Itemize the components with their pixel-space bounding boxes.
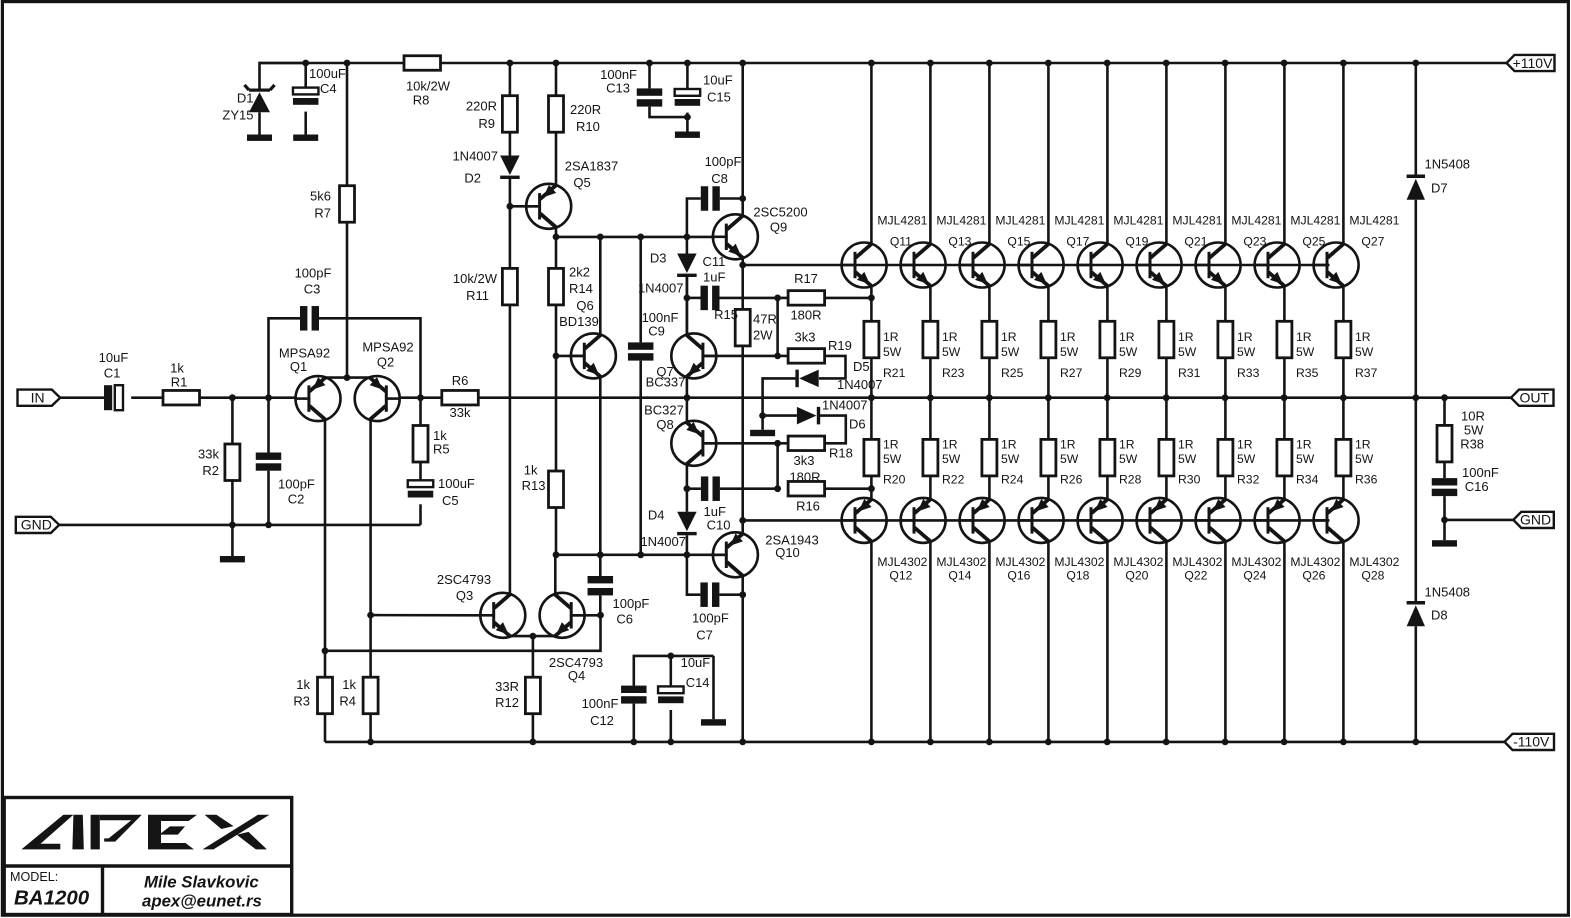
wire R25 to output: [988, 358, 991, 398]
svg-text:R13: R13: [522, 478, 546, 493]
svg-text:IN: IN: [31, 390, 45, 406]
transistor Q18 MJL4302: [1019, 498, 1064, 543]
capacitor C4 100uF: [304, 63, 307, 88]
svg-text:1R: 1R: [1237, 330, 1253, 344]
diode D6 1N4007: [797, 407, 817, 425]
resistor R29 1R 5W: [1100, 321, 1115, 358]
svg-text:R33: R33: [1237, 366, 1260, 380]
svg-text:MJL4302: MJL4302: [1349, 555, 1399, 569]
svg-text:R22: R22: [942, 473, 965, 487]
svg-text:MJL4281: MJL4281: [936, 214, 986, 228]
wire Q23 emitter: [1224, 286, 1227, 322]
svg-text:+110V: +110V: [1513, 55, 1553, 71]
svg-text:R10: R10: [576, 119, 600, 134]
svg-text:10k/2W: 10k/2W: [453, 271, 498, 286]
svg-text:1k: 1k: [342, 677, 356, 692]
svg-text:D5: D5: [853, 359, 870, 374]
resistor R11 10k/2W: [502, 268, 517, 305]
svg-text:D2: D2: [464, 171, 481, 186]
resistor R26 1R 5W: [1047, 398, 1050, 440]
svg-text:C15: C15: [707, 90, 731, 105]
svg-text:10uF: 10uF: [703, 73, 733, 88]
resistor R24 1R 5W: [988, 398, 991, 440]
svg-text:ZY15: ZY15: [222, 108, 253, 123]
wire Q11 emitter: [870, 286, 873, 322]
svg-text:100uF: 100uF: [438, 476, 475, 491]
wire Q4 base: [571, 614, 600, 617]
zener diode D1 ZY15: [249, 89, 270, 92]
resistor R3 1k: [324, 651, 327, 677]
svg-text:C1: C1: [104, 366, 121, 381]
transistor Q11 MJL4281: [842, 243, 887, 288]
svg-text:R35: R35: [1296, 366, 1319, 380]
wire Q2 collector down: [369, 420, 372, 678]
svg-text:10R: 10R: [1461, 409, 1485, 424]
wire Q13 collector: [929, 63, 932, 244]
transistor Q9 2SC5200: [713, 214, 758, 259]
resistor R38 10R 5W: [1443, 398, 1446, 426]
svg-text:GND: GND: [21, 517, 52, 533]
wire rail to D1: [260, 63, 306, 89]
diode D3 1N4007: [686, 237, 689, 254]
capacitor C9 100nF: [639, 237, 642, 343]
svg-text:C3: C3: [304, 282, 321, 297]
svg-text:3k3: 3k3: [795, 330, 816, 345]
svg-text:3k3: 3k3: [794, 453, 815, 468]
wire Q7 collector: [686, 276, 689, 336]
wire Q11 collector: [870, 63, 873, 244]
svg-text:R16: R16: [796, 499, 820, 514]
wire R22 to Q14 emitter: [929, 476, 932, 500]
svg-text:C8: C8: [711, 171, 728, 186]
svg-text:R3: R3: [293, 694, 310, 709]
resistor R12 33R: [532, 636, 535, 677]
wire Q12 collector: [870, 541, 873, 742]
diode D5 1N4007: [795, 370, 798, 388]
resistor R28 1R 5W: [1106, 398, 1109, 440]
wire Q19 collector: [1106, 63, 1109, 244]
transistor Q1 MPSA92: [296, 376, 341, 421]
wire C11 to R17: [720, 297, 789, 300]
svg-text:1N4007: 1N4007: [822, 398, 868, 413]
svg-text:R29: R29: [1119, 366, 1142, 380]
resistor R7 5k6: [346, 63, 349, 186]
wire Q10 collector: [741, 576, 744, 742]
wire D6 to R18: [820, 416, 846, 444]
svg-text:5W: 5W: [1178, 345, 1197, 359]
wire Q17 emitter: [1047, 286, 1050, 322]
wire Q6 collector: [599, 237, 602, 336]
svg-text:Q14: Q14: [948, 569, 971, 583]
svg-text:5W: 5W: [1355, 345, 1374, 359]
svg-text:1R: 1R: [942, 330, 958, 344]
ground: [293, 135, 318, 141]
net bias line wire: [556, 553, 727, 556]
terminal flag +110V: [1507, 55, 1555, 71]
resistor R18 3k3: [788, 436, 825, 451]
svg-text:2SC5200: 2SC5200: [753, 205, 807, 220]
svg-text:R8: R8: [413, 93, 430, 108]
svg-text:BC327: BC327: [644, 403, 684, 418]
svg-text:5W: 5W: [1119, 345, 1138, 359]
svg-text:5W: 5W: [1296, 345, 1315, 359]
ground: [761, 416, 764, 430]
svg-text:1k: 1k: [170, 361, 184, 376]
svg-text:MJL4302: MJL4302: [1113, 555, 1163, 569]
ground: [220, 556, 245, 562]
svg-text:1R: 1R: [1355, 330, 1371, 344]
resistor R33 1R 5W: [1218, 321, 1233, 358]
capacitor C1 10uF: [104, 385, 112, 410]
svg-text:Q12: Q12: [889, 569, 912, 583]
svg-text:5W: 5W: [942, 452, 961, 466]
capacitor C5 100uF: [408, 480, 434, 487]
svg-text:100pF: 100pF: [705, 154, 742, 169]
wire Q8 collector: [686, 464, 689, 512]
wire R34 to Q26 emitter: [1283, 476, 1286, 500]
wire Q16 collector: [988, 541, 991, 742]
svg-text:1R: 1R: [1237, 438, 1253, 452]
svg-text:C9: C9: [648, 324, 665, 339]
svg-text:R7: R7: [314, 206, 331, 221]
transistor Q22 MJL4302: [1137, 498, 1182, 543]
diode D4 1N4007: [677, 512, 697, 532]
transistor Q12 MJL4302: [842, 498, 887, 543]
svg-text:1N5408: 1N5408: [1425, 585, 1471, 600]
svg-text:C4: C4: [320, 81, 337, 96]
terminal flag IN: [18, 390, 61, 406]
svg-text:GND: GND: [1520, 512, 1551, 528]
diode D8 1N5408: [1415, 398, 1418, 601]
svg-text:1N5408: 1N5408: [1425, 157, 1471, 172]
svg-text:D1: D1: [237, 91, 254, 106]
svg-text:2SC4793: 2SC4793: [437, 572, 491, 587]
svg-text:2W: 2W: [753, 328, 773, 343]
svg-text:1N4007: 1N4007: [638, 281, 684, 296]
svg-text:100nF: 100nF: [1462, 465, 1499, 480]
svg-text:R26: R26: [1060, 473, 1083, 487]
svg-text:1uF: 1uF: [703, 270, 725, 285]
wire Q27 collector: [1342, 63, 1345, 244]
svg-text:MPSA92: MPSA92: [362, 340, 413, 355]
transistor Q15 MJL4281: [960, 243, 1005, 288]
wire Q3 Q4 emitters tail: [510, 635, 555, 638]
svg-text:BA1200: BA1200: [14, 887, 90, 910]
transistor Q17 MJL4281: [1019, 243, 1064, 288]
svg-text:2SA1837: 2SA1837: [565, 159, 619, 174]
resistor R19 3k3: [788, 349, 825, 364]
terminal flag OUT: [1511, 390, 1554, 406]
transistor Q20 MJL4302: [1078, 498, 1123, 543]
svg-text:180R: 180R: [789, 470, 820, 485]
wire Q14 collector: [929, 541, 932, 742]
svg-text:Q26: Q26: [1302, 569, 1325, 583]
svg-text:C13: C13: [606, 81, 630, 96]
capacitor C8 100pF: [687, 199, 701, 237]
svg-text:220R: 220R: [466, 99, 497, 114]
svg-text:C5: C5: [442, 493, 459, 508]
transistor Q7 BC337: [671, 333, 716, 378]
svg-text:R28: R28: [1119, 473, 1142, 487]
svg-text:R37: R37: [1355, 366, 1378, 380]
capacitor C16 100nF: [1443, 462, 1446, 478]
wire Q9 emitter to top base bus: [741, 258, 744, 266]
svg-text:R15: R15: [714, 307, 738, 322]
svg-text:R11: R11: [466, 288, 489, 303]
node Q2 base R5 R6 C3: [417, 394, 424, 401]
transistor Q25 MJL4281: [1255, 243, 1300, 288]
svg-text:BD139: BD139: [559, 314, 599, 329]
svg-text:MJL4281: MJL4281: [1349, 214, 1399, 228]
svg-text:Q5: Q5: [573, 175, 590, 190]
net +110V top rail wire: [259, 62, 405, 65]
resistor R8 10k/2W: [404, 56, 441, 71]
capacitor C15 10uF: [686, 63, 689, 89]
svg-text:MJL4302: MJL4302: [877, 555, 927, 569]
wire D5 to D6: [763, 378, 796, 415]
wire Q28 collector: [1342, 541, 1345, 742]
transistor Q10 2SA1943: [713, 532, 758, 577]
svg-text:5k6: 5k6: [310, 189, 331, 204]
resistor R13 1k: [549, 471, 564, 508]
svg-text:C16: C16: [1465, 479, 1489, 494]
net bottom base bus wire: [743, 519, 1330, 522]
terminal flag GND: [16, 517, 59, 533]
transistor Q21 MJL4281: [1137, 243, 1182, 288]
wire R26 to Q18 emitter: [1047, 476, 1050, 500]
transistor Q3 2SC4793: [480, 593, 525, 638]
svg-text:1k: 1k: [524, 463, 538, 478]
wire C3 left leg: [269, 318, 301, 397]
svg-text:5W: 5W: [1178, 452, 1197, 466]
svg-text:1R: 1R: [1060, 438, 1076, 452]
wire R28 to Q20 emitter: [1106, 476, 1109, 500]
svg-text:R31: R31: [1178, 366, 1201, 380]
transistor Q5 2SA1837: [526, 184, 571, 229]
svg-text:D4: D4: [648, 508, 665, 523]
svg-text:Q27: Q27: [1361, 235, 1384, 249]
svg-text:D8: D8: [1431, 608, 1448, 623]
svg-text:1R: 1R: [1001, 438, 1017, 452]
svg-text:2k2: 2k2: [569, 265, 590, 280]
svg-text:1R: 1R: [942, 438, 958, 452]
svg-text:MJL4281: MJL4281: [877, 214, 927, 228]
transistor Q28 MJL4302: [1314, 498, 1359, 543]
svg-text:Mile Slavkovic: Mile Slavkovic: [144, 873, 259, 892]
wire Q8 base to R18: [703, 442, 788, 445]
resistor R9 220R: [509, 63, 512, 96]
svg-text:MODEL:: MODEL:: [10, 870, 58, 884]
wire Q24 collector: [1224, 541, 1227, 742]
wire R19 to D5: [819, 356, 846, 379]
svg-text:1R: 1R: [1355, 438, 1371, 452]
resistor R2 33k: [231, 398, 234, 444]
wire Q15 emitter: [988, 286, 991, 322]
wire R17 to Q11 emitter: [825, 297, 872, 300]
svg-text:R9: R9: [478, 116, 495, 131]
svg-text:5W: 5W: [1001, 452, 1020, 466]
wire Q21 emitter: [1165, 286, 1168, 322]
wire IN to C1: [60, 396, 104, 399]
wire Q25 collector: [1283, 63, 1286, 244]
wire R9 to D2: [509, 132, 512, 155]
svg-text:MJL4281: MJL4281: [1054, 214, 1104, 228]
transistor Q14 MJL4302: [901, 498, 946, 543]
wire R3 to rail: [324, 714, 327, 742]
wire R10 to Q5 emitter: [555, 132, 558, 185]
diode D2 1N4007: [500, 156, 520, 176]
wire Q2 base: [400, 396, 421, 399]
svg-text:R4: R4: [339, 694, 356, 709]
terminal flag GND: [1513, 512, 1554, 528]
wire R29 to output: [1106, 358, 1109, 398]
wire C1 to R1: [131, 396, 163, 399]
svg-text:100pF: 100pF: [613, 596, 650, 611]
svg-text:Q9: Q9: [770, 220, 787, 235]
svg-text:Q28: Q28: [1361, 569, 1384, 583]
wire tail junction Q1 Q2 emitters: [325, 376, 370, 379]
wire Q7 base to R19: [703, 355, 788, 358]
svg-text:33k: 33k: [198, 447, 219, 462]
transistor Q23 MJL4281: [1196, 243, 1241, 288]
transistor Q13 MJL4281: [901, 243, 946, 288]
svg-text:MJL4302: MJL4302: [995, 555, 1045, 569]
capacitor C3 100pF: [300, 306, 307, 331]
resistor R31 1R 5W: [1159, 321, 1174, 358]
resistor R25 1R 5W: [982, 321, 997, 358]
svg-text:1R: 1R: [1119, 330, 1135, 344]
svg-text:R5: R5: [433, 442, 450, 457]
wire R33 to output: [1224, 358, 1227, 398]
resistor R27 1R 5W: [1041, 321, 1056, 358]
svg-text:1k: 1k: [296, 677, 310, 692]
svg-text:R2: R2: [202, 463, 219, 478]
wire Q1 collector to Q4 base line: [325, 420, 601, 651]
svg-text:47R: 47R: [753, 312, 777, 327]
resistor R34 1R 5W: [1283, 398, 1286, 440]
resistor R35 1R 5W: [1277, 321, 1292, 358]
capacitor C10 1uF: [687, 487, 701, 490]
svg-text:1R: 1R: [1119, 438, 1135, 452]
net -110V bottom rail wire: [325, 741, 1507, 744]
wire Q7 emitter: [686, 377, 689, 398]
resistor R36 1R 5W: [1342, 398, 1345, 440]
title block frame: [4, 798, 292, 915]
svg-text:Q16: Q16: [1007, 569, 1030, 583]
wire link R18 R16: [776, 443, 779, 488]
svg-text:5W: 5W: [1001, 345, 1020, 359]
wire C3 right leg: [319, 318, 421, 397]
svg-text:MJL4281: MJL4281: [1290, 214, 1340, 228]
svg-text:apex@eunet.rs: apex@eunet.rs: [142, 892, 262, 911]
svg-text:1R: 1R: [1178, 330, 1194, 344]
svg-text:R25: R25: [1001, 366, 1024, 380]
svg-text:180R: 180R: [790, 308, 821, 323]
svg-text:R30: R30: [1178, 473, 1201, 487]
svg-text:33R: 33R: [495, 679, 519, 694]
net GND input wire: [59, 524, 421, 527]
svg-text:R23: R23: [942, 366, 965, 380]
capacitor C12 100nF: [634, 656, 714, 686]
svg-text:Q2: Q2: [377, 355, 394, 370]
wire Q21 collector: [1165, 63, 1168, 244]
svg-text:100pF: 100pF: [278, 477, 315, 492]
svg-text:Q1: Q1: [290, 359, 307, 374]
svg-text:5W: 5W: [942, 345, 961, 359]
capacitor C2 100pF: [267, 398, 270, 453]
wire R1 to Q1 base: [200, 396, 297, 399]
svg-text:1R: 1R: [883, 438, 899, 452]
svg-text:100nF: 100nF: [582, 696, 619, 711]
svg-text:Q10: Q10: [775, 545, 800, 560]
svg-text:100pF: 100pF: [692, 611, 729, 626]
svg-text:MJL4302: MJL4302: [1290, 555, 1340, 569]
resistor R22 1R 5W: [929, 398, 932, 440]
capacitor C6 100pF: [599, 555, 602, 576]
wire Q27 emitter: [1342, 286, 1345, 322]
wire R27 to output: [1047, 358, 1050, 398]
wire R24 to Q16 emitter: [988, 476, 991, 500]
svg-text:1N4007: 1N4007: [640, 534, 686, 549]
svg-text:5W: 5W: [1060, 452, 1079, 466]
resistor R32 1R 5W: [1224, 398, 1227, 440]
wire R4 to rail: [369, 714, 372, 742]
svg-text:1N4007: 1N4007: [837, 377, 883, 392]
resistor R16 180R: [788, 481, 825, 496]
wire Q25 emitter: [1283, 286, 1286, 322]
svg-text:R20: R20: [883, 473, 906, 487]
wire Q22 collector: [1165, 541, 1168, 742]
svg-text:MJL4302: MJL4302: [1172, 555, 1222, 569]
svg-text:R38: R38: [1460, 437, 1484, 452]
wire Q17 collector: [1047, 63, 1050, 244]
svg-text:MJL4281: MJL4281: [995, 214, 1045, 228]
transistor Q24 MJL4302: [1196, 498, 1241, 543]
wire Q19 emitter: [1106, 286, 1109, 322]
wire Q20 collector: [1106, 541, 1109, 742]
svg-text:1R: 1R: [883, 330, 899, 344]
svg-text:R6: R6: [452, 373, 469, 388]
wire to GND flag: [1445, 519, 1514, 522]
svg-text:MJL4281: MJL4281: [1231, 214, 1281, 228]
svg-text:10k/2W: 10k/2W: [406, 79, 451, 94]
net top base bus wire: [743, 264, 1330, 267]
wire Q8 emitter: [686, 398, 689, 423]
resistor R23 1R 5W: [923, 321, 938, 358]
svg-text:Q6: Q6: [576, 298, 593, 313]
svg-text:Q4: Q4: [568, 668, 585, 683]
svg-text:-110V: -110V: [1513, 734, 1550, 750]
wire Q3 base: [371, 614, 481, 617]
svg-text:C14: C14: [686, 675, 710, 690]
capacitor C11 1uF: [687, 297, 701, 300]
svg-text:MJL4281: MJL4281: [1172, 214, 1222, 228]
wire R37 to output: [1342, 358, 1345, 398]
svg-text:R14: R14: [569, 281, 593, 296]
svg-text:1R: 1R: [1296, 438, 1312, 452]
ground: [1432, 540, 1457, 546]
wire Q5 collector to R14: [555, 228, 558, 269]
svg-text:R34: R34: [1296, 473, 1319, 487]
resistor R37 1R 5W: [1336, 321, 1351, 358]
resistor R14 2k2: [549, 268, 564, 305]
logo APEX: [21, 815, 269, 850]
wire R35 to output: [1283, 358, 1286, 398]
svg-text:5W: 5W: [883, 452, 902, 466]
svg-text:OUT: OUT: [1519, 390, 1549, 406]
terminal flag -110V: [1505, 734, 1555, 750]
svg-text:R24: R24: [1001, 473, 1024, 487]
